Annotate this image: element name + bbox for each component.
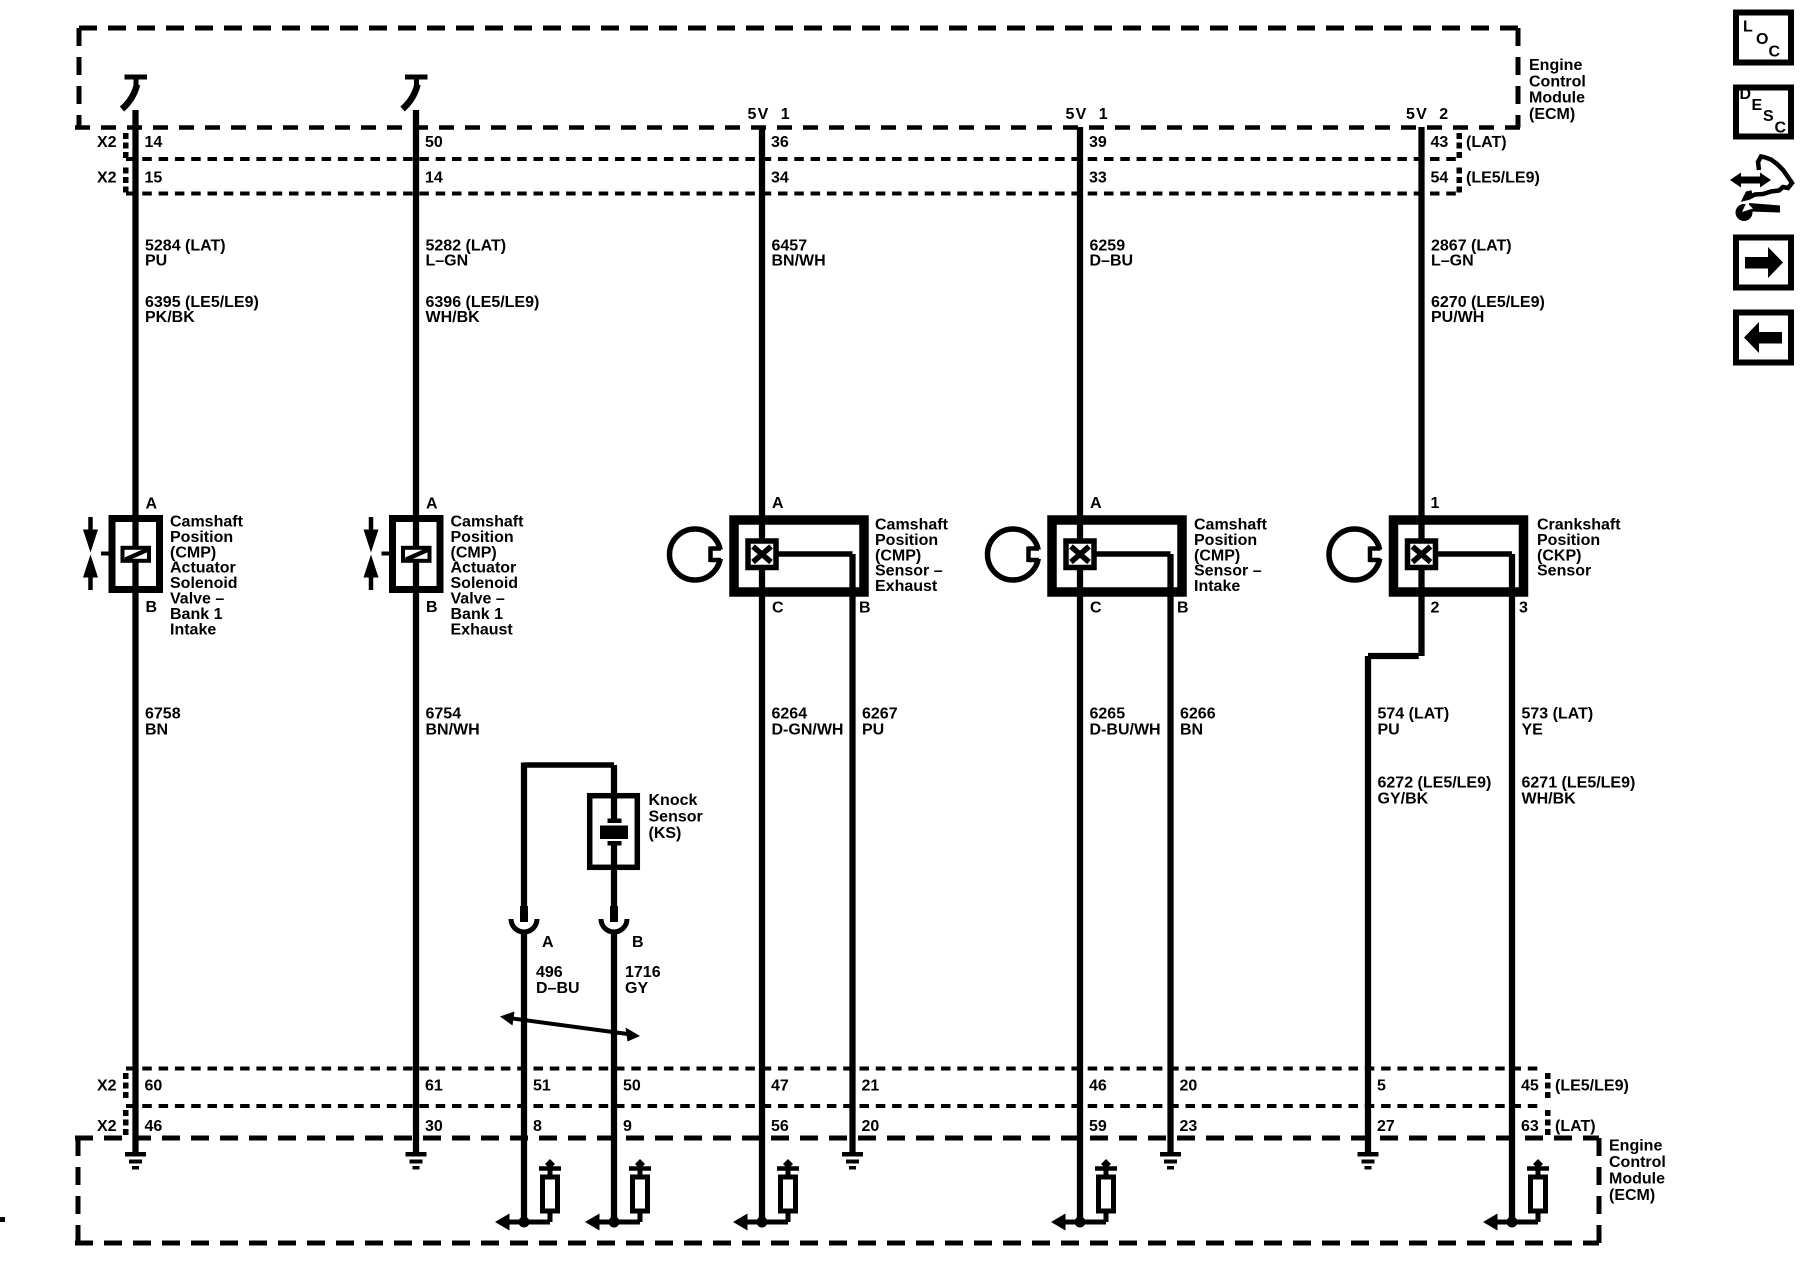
svg-text:GY/BK: GY/BK xyxy=(1378,791,1429,808)
svg-text:23: 23 xyxy=(1180,1118,1198,1135)
svg-text:Sensor: Sensor xyxy=(1537,563,1591,580)
svg-text:D–BU: D–BU xyxy=(1090,253,1134,270)
svg-text:33: 33 xyxy=(1089,170,1107,187)
svg-text:47: 47 xyxy=(771,1078,789,1095)
svg-text:36: 36 xyxy=(771,134,789,151)
svg-text:6271 (LE5/LE9): 6271 (LE5/LE9) xyxy=(1522,775,1636,792)
svg-text:14: 14 xyxy=(425,170,443,187)
svg-text:6758: 6758 xyxy=(145,706,181,723)
svg-text:51: 51 xyxy=(533,1078,551,1095)
svg-text:L: L xyxy=(1743,19,1753,36)
svg-text:21: 21 xyxy=(862,1078,880,1095)
svg-text:5: 5 xyxy=(1377,1078,1386,1095)
svg-text:A: A xyxy=(542,934,554,951)
svg-text:D–BU: D–BU xyxy=(536,980,580,997)
svg-text:PU: PU xyxy=(1378,722,1400,739)
svg-text:B: B xyxy=(859,600,871,617)
svg-text:574 (LAT): 574 (LAT) xyxy=(1378,706,1450,723)
svg-text:Intake: Intake xyxy=(170,621,216,638)
svg-text:6267: 6267 xyxy=(862,706,898,723)
svg-text:496: 496 xyxy=(536,964,563,981)
svg-text:D-GN/WH: D-GN/WH xyxy=(772,722,844,739)
svg-text:6272 (LE5/LE9): 6272 (LE5/LE9) xyxy=(1378,775,1492,792)
svg-text:Knock: Knock xyxy=(649,792,698,809)
svg-text:PK/BK: PK/BK xyxy=(145,309,195,326)
svg-text:39: 39 xyxy=(1089,134,1107,151)
svg-text:WH/BK: WH/BK xyxy=(426,309,481,326)
svg-text:Intake: Intake xyxy=(1194,578,1240,595)
svg-text:C: C xyxy=(1090,600,1102,617)
svg-text:54: 54 xyxy=(1431,170,1449,187)
svg-text:S: S xyxy=(1763,108,1774,125)
svg-text:X2: X2 xyxy=(97,134,117,151)
svg-text:3: 3 xyxy=(1519,600,1528,617)
svg-text:43: 43 xyxy=(1431,134,1449,151)
svg-text:50: 50 xyxy=(623,1078,641,1095)
svg-text:(KS): (KS) xyxy=(649,825,682,842)
svg-text:D-BU/WH: D-BU/WH xyxy=(1090,722,1161,739)
svg-text:(LAT): (LAT) xyxy=(1466,134,1507,151)
svg-text:59: 59 xyxy=(1089,1118,1107,1135)
svg-text:2: 2 xyxy=(1431,600,1440,617)
svg-text:C: C xyxy=(1769,44,1781,61)
svg-text:Module: Module xyxy=(1609,1171,1665,1188)
svg-text:B: B xyxy=(632,934,644,951)
svg-text:B: B xyxy=(146,599,158,616)
svg-text:(LAT): (LAT) xyxy=(1555,1118,1596,1135)
svg-text:1716: 1716 xyxy=(625,964,661,981)
svg-text:BN/WH: BN/WH xyxy=(772,253,826,270)
svg-text:PU: PU xyxy=(862,722,884,739)
svg-text:B: B xyxy=(1177,600,1189,617)
svg-text:5V 1: 5V 1 xyxy=(1066,106,1109,123)
svg-text:PU/WH: PU/WH xyxy=(1431,309,1484,326)
svg-text:6264: 6264 xyxy=(772,706,808,723)
svg-text:GY: GY xyxy=(625,980,648,997)
svg-text:L–GN: L–GN xyxy=(1431,253,1474,270)
svg-text:56: 56 xyxy=(771,1118,789,1135)
svg-text:Module: Module xyxy=(1529,90,1585,107)
svg-text:(ECM): (ECM) xyxy=(1529,106,1575,123)
svg-text:A: A xyxy=(772,495,784,512)
svg-text:X2: X2 xyxy=(97,1078,117,1095)
svg-text:Control: Control xyxy=(1609,1154,1666,1171)
svg-text:45: 45 xyxy=(1521,1078,1539,1095)
svg-text:46: 46 xyxy=(145,1118,163,1135)
svg-text:A: A xyxy=(426,496,438,513)
svg-text:9: 9 xyxy=(623,1118,632,1135)
svg-text:Engine: Engine xyxy=(1529,57,1582,74)
svg-text:6265: 6265 xyxy=(1090,706,1126,723)
svg-text:Exhaust: Exhaust xyxy=(875,578,938,595)
svg-text:WH/BK: WH/BK xyxy=(1522,791,1577,808)
svg-text:20: 20 xyxy=(1180,1078,1198,1095)
svg-text:A: A xyxy=(1090,495,1102,512)
svg-text:63: 63 xyxy=(1521,1118,1539,1135)
svg-text:O: O xyxy=(1756,31,1768,48)
svg-text:61: 61 xyxy=(425,1078,443,1095)
svg-text:PU: PU xyxy=(145,253,167,270)
svg-text:14: 14 xyxy=(145,134,163,151)
svg-text:B: B xyxy=(426,599,438,616)
svg-text:573 (LAT): 573 (LAT) xyxy=(1522,706,1594,723)
svg-text:30: 30 xyxy=(425,1118,443,1135)
svg-text:1: 1 xyxy=(1431,495,1440,512)
svg-text:D: D xyxy=(1740,86,1752,103)
svg-text:34: 34 xyxy=(771,170,789,187)
svg-text:E: E xyxy=(1752,97,1763,114)
svg-text:C: C xyxy=(1775,120,1787,137)
svg-text:YE: YE xyxy=(1522,722,1544,739)
svg-text:(ECM): (ECM) xyxy=(1609,1187,1655,1204)
svg-text:46: 46 xyxy=(1089,1078,1107,1095)
svg-text:Control: Control xyxy=(1529,73,1586,90)
svg-text:20: 20 xyxy=(862,1118,880,1135)
svg-text:X2: X2 xyxy=(97,170,117,187)
svg-text:(LE5/LE9): (LE5/LE9) xyxy=(1466,170,1540,187)
svg-text:BN/WH: BN/WH xyxy=(426,722,480,739)
svg-text:15: 15 xyxy=(145,170,163,187)
svg-text:A: A xyxy=(146,496,158,513)
svg-text:Engine: Engine xyxy=(1609,1138,1662,1155)
svg-text:L–GN: L–GN xyxy=(426,253,469,270)
svg-text:Sensor: Sensor xyxy=(649,809,703,826)
svg-text:C: C xyxy=(772,600,784,617)
svg-text:(LE5/LE9): (LE5/LE9) xyxy=(1555,1078,1629,1095)
svg-text:6266: 6266 xyxy=(1180,706,1216,723)
svg-text:BN: BN xyxy=(1180,722,1203,739)
svg-text:60: 60 xyxy=(145,1078,163,1095)
svg-text:50: 50 xyxy=(425,134,443,151)
svg-text:27: 27 xyxy=(1377,1118,1395,1135)
svg-text:X2: X2 xyxy=(97,1118,117,1135)
svg-text:6754: 6754 xyxy=(426,706,462,723)
svg-text:5V 2: 5V 2 xyxy=(1406,106,1449,123)
svg-text:5V 1: 5V 1 xyxy=(748,106,791,123)
svg-text:8: 8 xyxy=(533,1118,542,1135)
svg-text:BN: BN xyxy=(145,722,168,739)
svg-text:Exhaust: Exhaust xyxy=(451,621,514,638)
